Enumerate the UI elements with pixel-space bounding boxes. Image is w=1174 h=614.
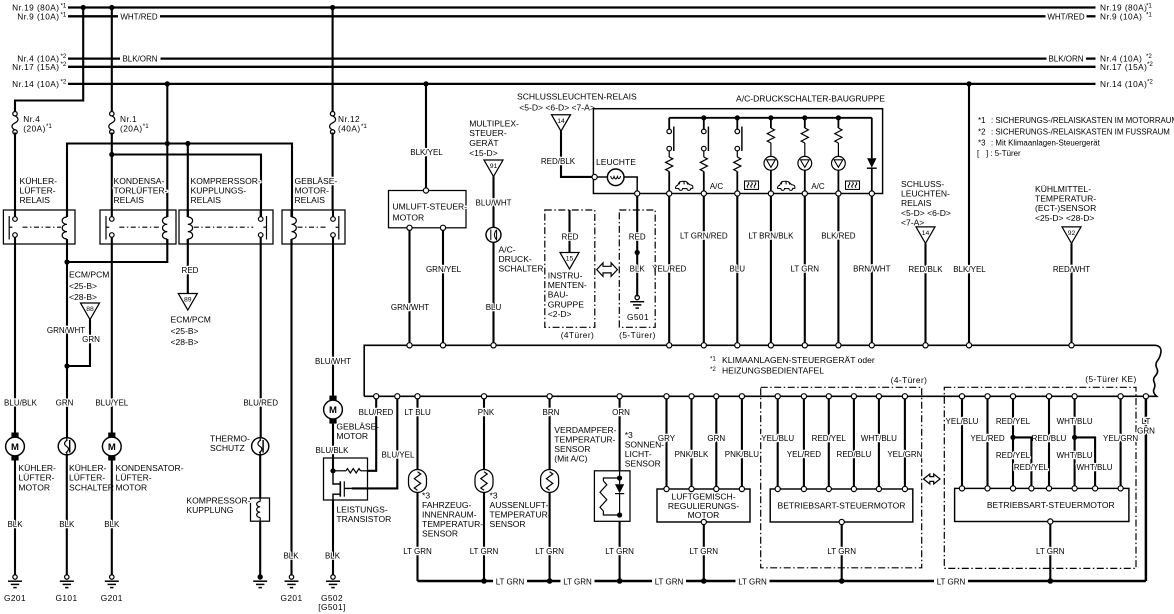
svg-text:LT GRN/RED: LT GRN/RED xyxy=(680,232,728,241)
svg-text:LT GRN: LT GRN xyxy=(790,265,819,274)
svg-text:RELAIS: RELAIS xyxy=(191,195,222,205)
svg-text:FAHRZEUG-: FAHRZEUG- xyxy=(422,500,472,510)
wire branch RED/YEL xyxy=(1013,437,1031,488)
wire baugruppe top bus xyxy=(669,117,872,119)
svg-text:BLK: BLK xyxy=(325,552,341,561)
svg-text:Nr.17 (15A): Nr.17 (15A) xyxy=(1100,62,1147,72)
switch KUEHLER-LUEFTER-SCHALTER xyxy=(58,438,75,455)
terminal control unit bottom x962 xyxy=(959,394,964,399)
junction coil bus x167 xyxy=(165,141,170,146)
svg-text:STEUER-: STEUER- xyxy=(469,128,507,138)
wire coil supply bus xyxy=(67,144,292,218)
svg-text:WHT/BLU: WHT/BLU xyxy=(861,434,897,443)
svg-text:GRN/WHT: GRN/WHT xyxy=(47,326,85,335)
svg-text:*2: *2 xyxy=(61,78,67,85)
icon car vent 2 xyxy=(778,181,795,190)
junction in transistor box xyxy=(330,468,335,473)
wire sensor2 to bus xyxy=(483,493,485,582)
wire multiplex BLU/WHT xyxy=(492,177,494,228)
svg-text:PNK/BLK: PNK/BLK xyxy=(675,450,709,459)
svg-text:SCHALTER: SCHALTER xyxy=(69,482,114,492)
svg-text:(40A): (40A) xyxy=(338,124,361,134)
relay K1 KUEHLER-LUEFTER-RELAIS xyxy=(3,210,75,244)
wire motor1 to ground BLK xyxy=(14,461,16,576)
resistor in transistor box xyxy=(333,470,346,472)
svg-text:MOTOR: MOTOR xyxy=(116,482,148,492)
svg-text:LT BRN/BLK: LT BRN/BLK xyxy=(748,232,794,241)
svg-text:G501: G501 xyxy=(627,312,649,322)
svg-text:INNENRAUM-: INNENRAUM- xyxy=(422,510,477,520)
terminal control unit bottom x987 xyxy=(985,394,990,399)
svg-text:RELAIS: RELAIS xyxy=(295,195,326,205)
svg-text:*1: *1 xyxy=(710,356,716,363)
wire betriebsart5 to bus xyxy=(1049,524,1051,581)
svg-text:*2: *2 xyxy=(61,61,67,68)
svg-text:91: 91 xyxy=(490,163,498,170)
svg-text:RED: RED xyxy=(562,232,579,241)
wire relay4 to geblaese motor BLU/WHT xyxy=(332,244,334,400)
svg-text:BLU/YEL: BLU/YEL xyxy=(382,450,415,459)
arrow equivalence left xyxy=(597,263,618,277)
svg-text:YEL/GRN: YEL/GRN xyxy=(887,450,922,459)
terminal betriebsart4 x878 xyxy=(876,486,881,491)
terminal leuchte feed xyxy=(592,174,597,179)
wire RED/BLK to leuchte xyxy=(561,131,592,177)
wire GRY luftgemisch xyxy=(665,399,667,489)
svg-text:BLU/YEL: BLU/YEL xyxy=(95,399,128,408)
svg-text:<25-D> <28-D>: <25-D> <28-D> xyxy=(1035,213,1094,223)
wire BLK/YEL to umluft motor xyxy=(425,84,427,191)
svg-text:GRN: GRN xyxy=(56,399,74,408)
svg-text:*1: *1 xyxy=(61,11,67,18)
wire relay1 coil return xyxy=(66,239,68,366)
svg-text:SCHALTER: SCHALTER xyxy=(499,264,544,274)
terminal control unit bottom x1049 xyxy=(1046,394,1051,399)
svg-text:BLU/WHT: BLU/WHT xyxy=(476,199,512,208)
svg-text:SCHLUSS-: SCHLUSS- xyxy=(901,179,944,189)
svg-text:LÜFTER-: LÜFTER- xyxy=(116,473,152,483)
junction branch RED/YEL xyxy=(1010,435,1015,440)
svg-text:UMLUFT-STEUER-: UMLUFT-STEUER- xyxy=(393,202,468,212)
icon car vent 1 xyxy=(676,181,693,190)
junction lamp ground xyxy=(635,250,640,255)
svg-text:GRN/WHT: GRN/WHT xyxy=(391,303,429,312)
sensor FAHRZEUG-INNENRAUM thermistor xyxy=(409,470,427,493)
terminal control unit top x703 xyxy=(701,343,706,348)
svg-text:<2-D>: <2-D> xyxy=(548,309,572,319)
sensor SONNENLICHT box xyxy=(594,471,630,522)
svg-text:LT GRN: LT GRN xyxy=(827,547,856,556)
wire AC druckschalter BLU xyxy=(492,242,494,345)
wire switch bus fuse Nr.1 to relay3 xyxy=(112,155,261,220)
wire fuse Nr.4 to relay xyxy=(14,133,16,211)
svg-text:SENSOR: SENSOR xyxy=(625,459,661,469)
svg-text:LT GRN: LT GRN xyxy=(563,577,592,586)
svg-text:BLK: BLK xyxy=(7,520,23,529)
wire YEL/BLU betriebsart5 xyxy=(961,399,963,489)
terminal umluft top xyxy=(423,188,428,193)
junction bus x619 xyxy=(617,578,623,584)
junction switch bus x112 xyxy=(109,152,114,157)
svg-text:LT GRN: LT GRN xyxy=(689,547,718,556)
svg-text:*1: *1 xyxy=(46,123,52,130)
svg-text:A/C-: A/C- xyxy=(499,245,516,255)
wire relay3 coil to ECM RED xyxy=(187,239,189,294)
terminal umluft bottom left xyxy=(407,225,412,230)
relay K2 KONDENSATORLUEFTER-RELAIS xyxy=(100,210,176,244)
svg-text:89: 89 xyxy=(184,297,192,304)
svg-text:LEISTUNGS-: LEISTUNGS- xyxy=(336,505,387,515)
svg-text:RED/BLU: RED/BLU xyxy=(837,450,872,459)
svg-text:(4-Türer): (4-Türer) xyxy=(891,375,928,385)
svg-text:MOTOR: MOTOR xyxy=(18,482,50,492)
wire drop to fuse Nr.12 xyxy=(332,8,334,112)
junction on Nr.19 bus at x112 xyxy=(109,5,114,10)
terminal control unit top x969 xyxy=(966,343,971,348)
svg-text:BLU/BLK: BLU/BLK xyxy=(316,446,350,455)
wire Nr.17 supply xyxy=(68,66,1096,68)
wire GRN/YEL umluft xyxy=(442,230,444,345)
svg-text:<28-B>: <28-B> xyxy=(171,337,199,347)
motor M1 KUEHLER-LUEFTER-MOTOR xyxy=(11,433,18,438)
box 5-tuerer-ke dash-dot xyxy=(944,387,1136,568)
svg-text:RELAIS: RELAIS xyxy=(901,198,932,208)
terminal control unit top x925 xyxy=(923,343,928,348)
svg-text:GRUPPE: GRUPPE xyxy=(548,299,584,309)
svg-text:RED/WHT: RED/WHT xyxy=(1053,265,1090,274)
svg-text:RED/BLK: RED/BLK xyxy=(908,265,943,274)
terminal betriebsart4 x828 xyxy=(826,486,831,491)
transistor Q1 mosfet symbol xyxy=(333,471,340,484)
terminal betriebsart5 x1095 xyxy=(1093,486,1098,491)
lamp LEUCHTE xyxy=(595,176,608,178)
sun sensor internals xyxy=(619,471,621,478)
svg-text:Nr.4: Nr.4 xyxy=(23,114,40,124)
svg-text:VERDAMPFER-: VERDAMPFER- xyxy=(554,425,616,435)
wire LT GRN far right xyxy=(1145,399,1148,581)
wire YEL/RED betriebsart4 xyxy=(803,399,805,489)
wire RED to connector 15 xyxy=(568,210,570,253)
component UMLUFT-STEUER-MOTOR box xyxy=(389,191,467,228)
svg-text:TEMPERATUR-: TEMPERATUR- xyxy=(490,510,551,520)
svg-text:BLK/ORN: BLK/ORN xyxy=(122,55,157,64)
wire RED/BLU betriebsart5 xyxy=(1048,399,1050,489)
wire relay2 coil return link xyxy=(67,239,167,262)
terminal control unit top x804 xyxy=(802,343,807,348)
terminal betriebsart4 x904 xyxy=(902,486,907,491)
terminal control unit bottom x777 xyxy=(775,394,780,399)
terminal control unit bottom x1013 xyxy=(1010,394,1015,399)
svg-text:GRN: GRN xyxy=(1137,427,1155,436)
motor BETRIEBSART-STEUERMOTOR 4T box xyxy=(770,489,913,522)
wire GRN/WHT umluft xyxy=(408,230,410,345)
terminal control unit bottom x1120 xyxy=(1118,394,1123,399)
svg-text:MOTOR: MOTOR xyxy=(336,431,368,441)
svg-text:KÜHLER-: KÜHLER- xyxy=(69,463,107,473)
svg-text:BLK/YEL: BLK/YEL xyxy=(953,265,986,274)
svg-text:BLU/WHT: BLU/WHT xyxy=(315,357,351,366)
component KOMPRESSOR-KUPPLUNG xyxy=(251,498,270,521)
terminal leuchte down xyxy=(635,191,640,196)
svg-text:MOTOR-: MOTOR- xyxy=(295,186,330,196)
svg-text:LT GRN: LT GRN xyxy=(470,547,499,556)
svg-text:TORLÜFTER-: TORLÜFTER- xyxy=(114,186,168,196)
svg-text:<15-D>: <15-D> xyxy=(469,148,498,158)
terminal control unit bottom x803 xyxy=(801,394,806,399)
sensor VERDAMPFER thermistor xyxy=(541,470,559,493)
wire BRN sensor xyxy=(549,399,551,469)
terminal control unit bottom x484 xyxy=(481,394,486,399)
wire relay4 coil to ground BLK xyxy=(290,239,292,576)
svg-text:Nr.1: Nr.1 xyxy=(120,114,137,124)
wire sensor1 to bus xyxy=(416,493,418,582)
svg-text:BETRIEBSART-STEUERMOTOR: BETRIEBSART-STEUERMOTOR xyxy=(778,501,906,511)
svg-text:G201: G201 xyxy=(280,593,302,603)
svg-text:Nr.9 (10A): Nr.9 (10A) xyxy=(17,11,59,21)
svg-text:KONDENSATOR-: KONDENSATOR- xyxy=(116,463,184,473)
svg-text:LT GRN: LT GRN xyxy=(937,577,966,586)
svg-text:*2: *2 xyxy=(978,127,985,136)
wire YEL/RED drop xyxy=(668,196,670,345)
wire transistor to ground BLK xyxy=(332,500,334,576)
wire switch to ground BLK xyxy=(66,455,68,576)
wire Nr.9 WHT/RED supply xyxy=(68,15,118,17)
wire PNK sensor xyxy=(483,399,485,469)
wire BLU/RED from control unit xyxy=(367,399,376,471)
svg-text:TRANSISTOR: TRANSISTOR xyxy=(336,514,391,524)
wire thermoschutz to kupplung xyxy=(259,455,261,498)
box 4-tuerer dash-dot xyxy=(761,387,922,568)
svg-text:TEMPERATUR-: TEMPERATUR- xyxy=(422,519,483,529)
svg-text:KÜHLER-: KÜHLER- xyxy=(20,176,58,186)
svg-text:BLK: BLK xyxy=(104,520,120,529)
terminal control unit bottom x828 xyxy=(826,394,831,399)
terminal betriebsart5 x1120 xyxy=(1118,486,1123,491)
svg-text:*2: *2 xyxy=(710,366,716,373)
svg-text:PNK/BLU: PNK/BLU xyxy=(725,450,759,459)
svg-text:RED: RED xyxy=(182,266,199,275)
terminal betriebsart5 bottom xyxy=(1048,519,1053,524)
svg-text:BLU/BLK: BLU/BLK xyxy=(4,399,38,408)
svg-text:BAU-: BAU- xyxy=(548,290,569,300)
terminal control unit bottom x1074 xyxy=(1072,394,1077,399)
svg-text:RED: RED xyxy=(629,232,646,241)
wire PNK/BLK luftgemisch xyxy=(690,399,692,489)
wire branch WHT/BLU xyxy=(1075,437,1096,488)
wire LT BRN/BLK drop xyxy=(770,196,772,345)
svg-text:BLU: BLU xyxy=(486,303,502,312)
terminal control unit bottom x1145 xyxy=(1143,394,1148,399)
valve column 4 with resistor xyxy=(768,115,773,120)
connector 15 instrumente xyxy=(560,253,579,270)
svg-text:BLK: BLK xyxy=(630,265,646,274)
svg-text:AUSSENLUFT-: AUSSENLUFT- xyxy=(490,500,549,510)
svg-text:(20A): (20A) xyxy=(120,124,143,134)
ground below kupplung xyxy=(258,574,263,579)
svg-text:88: 88 xyxy=(86,306,94,313)
wire relay3 to thermoschutz BLU/RED xyxy=(260,244,262,438)
wire kupplung to ground xyxy=(259,521,261,576)
wire relay1 to kuehler-luefter-motor BLU/BLK xyxy=(14,244,16,433)
wire Nr.14 drop to coil bus xyxy=(166,84,168,217)
wire coil bus to relay3 coil xyxy=(187,144,189,218)
terminal betriebsart5 x1049 xyxy=(1046,486,1051,491)
svg-text:GEBLÄSE-: GEBLÄSE- xyxy=(295,176,338,186)
svg-text:BLK/YEL: BLK/YEL xyxy=(410,148,443,157)
box KLIMAANLAGEN-STEUERGERAET xyxy=(364,345,1161,396)
terminal luftgemisch bottom xyxy=(701,519,706,524)
svg-text:LT GRN: LT GRN xyxy=(738,577,767,586)
terminal control unit bottom x619 xyxy=(617,394,622,399)
terminal control unit top x770 xyxy=(768,343,773,348)
wire RED/BLK right drop xyxy=(924,243,926,345)
junction bus x703 xyxy=(701,578,707,584)
connector 14 schlussleuchten xyxy=(552,115,571,132)
svg-text:G101: G101 xyxy=(55,593,77,603)
svg-text:WHT/BLU: WHT/BLU xyxy=(1077,463,1113,472)
svg-text:KUPPLUNG: KUPPLUNG xyxy=(186,505,233,515)
svg-text:LÜFTER-: LÜFTER- xyxy=(18,473,54,483)
svg-text:WHT/BLU: WHT/BLU xyxy=(1057,451,1093,460)
svg-text:M: M xyxy=(329,405,337,416)
svg-text:BRN/WHT: BRN/WHT xyxy=(853,265,890,274)
diode column in baugruppe xyxy=(871,118,873,159)
svg-text:DRUCK-: DRUCK- xyxy=(499,254,532,264)
svg-text:*3: *3 xyxy=(978,139,986,148)
terminal baugruppe bottom x770 xyxy=(768,191,773,196)
terminal control unit top x1071 xyxy=(1069,343,1074,348)
box INSTRUMENTEN dash-dot xyxy=(545,210,595,327)
motor M2 KONDENSATOR-LUEFTER-MOTOR xyxy=(108,433,115,438)
svg-text:KONDENSA-: KONDENSA- xyxy=(114,176,165,186)
svg-text:TEMPERATUR-: TEMPERATUR- xyxy=(1035,194,1096,204)
svg-text:TEMPERATUR-: TEMPERATUR- xyxy=(554,435,615,445)
motor BETRIEBSART-STEUERMOTOR 5T box xyxy=(955,488,1129,521)
terminal control unit bottom x376 xyxy=(374,394,379,399)
terminal betriebsart5 x962 xyxy=(959,486,964,491)
svg-text:BRN: BRN xyxy=(543,408,560,417)
svg-text:15: 15 xyxy=(566,256,574,263)
svg-text:BLU/RED: BLU/RED xyxy=(243,399,278,408)
svg-text:KLIMAANLAGEN-STEUERGERÄT oder: KLIMAANLAGEN-STEUERGERÄT oder xyxy=(722,355,875,365)
svg-text:SENSOR: SENSOR xyxy=(422,529,458,539)
svg-text:<7-A>: <7-A> xyxy=(901,217,924,227)
svg-text:LÜFTER-: LÜFTER- xyxy=(20,186,56,196)
svg-text:THERMO-: THERMO- xyxy=(210,434,250,444)
svg-text:LT GRN: LT GRN xyxy=(535,547,564,556)
connector 88 ECM/PCM xyxy=(81,303,100,320)
svg-text:GRN/YEL: GRN/YEL xyxy=(426,265,462,274)
svg-text:MOTOR: MOTOR xyxy=(393,212,425,222)
svg-text:LT GRN: LT GRN xyxy=(1036,547,1065,556)
fuse Nr.4 (20A) xyxy=(13,112,17,116)
terminal control unit bottom x397 xyxy=(395,394,400,399)
svg-text:: SICHERUNGS-/RELAISKASTEN IM: : SICHERUNGS-/RELAISKASTEN IM FUSSRAUM xyxy=(991,127,1170,136)
icon defrost 2 xyxy=(846,181,860,189)
terminal baugruppe bottom x669 xyxy=(667,191,672,196)
wire Nr.19 80A supply bus xyxy=(68,6,1096,8)
svg-text:GRY: GRY xyxy=(658,434,676,443)
junction on Nr.14 line at x969 xyxy=(966,81,971,86)
terminal control unit bottom x549 xyxy=(547,394,552,399)
svg-text:SENSOR: SENSOR xyxy=(490,519,526,529)
ground G502 xyxy=(331,575,335,579)
svg-text:RED/BLK: RED/BLK xyxy=(541,157,576,166)
svg-text:ECM/PCM: ECM/PCM xyxy=(69,270,109,280)
terminal betriebsart5 x1031 xyxy=(1029,486,1034,491)
wire LT GRN ground bus xyxy=(418,580,494,583)
wire BLU drop xyxy=(736,196,738,345)
svg-text:*2: *2 xyxy=(1147,78,1153,85)
svg-text:RELAIS: RELAIS xyxy=(114,195,145,205)
svg-text:*2: *2 xyxy=(61,53,67,60)
motor M3 GEBLAESE-MOTOR xyxy=(329,396,336,401)
svg-text:KOMPRESSOR-: KOMPRESSOR- xyxy=(186,496,250,506)
svg-text:LT GRN: LT GRN xyxy=(655,577,684,586)
junction branch WHT/BLU xyxy=(1072,435,1077,440)
svg-text:*3: *3 xyxy=(422,491,430,501)
terminal luftgemisch x691 xyxy=(689,486,694,491)
terminal luftgemisch x741 xyxy=(739,486,744,491)
icon defrost 1 xyxy=(745,181,759,189)
svg-text:KUPPLUNGS-: KUPPLUNGS- xyxy=(191,186,247,196)
ground G501 in box xyxy=(635,295,639,299)
wire BLK/YEL right drop xyxy=(968,84,970,345)
svg-text:: SICHERUNGS-/RELAISKASTEN IM: : SICHERUNGS-/RELAISKASTEN IM MOTORRAUM xyxy=(991,116,1174,125)
svg-text:RED/YEL: RED/YEL xyxy=(996,451,1031,460)
svg-text:YEL/RED: YEL/RED xyxy=(652,265,686,274)
svg-text:HEIZUNGSBEDIENTAFEL: HEIZUNGSBEDIENTAFEL xyxy=(722,366,824,376)
svg-text:SCHUTZ: SCHUTZ xyxy=(210,443,245,453)
wire luftgemisch to bus xyxy=(703,525,705,581)
svg-text:RELAIS: RELAIS xyxy=(20,195,51,205)
wire YEL/GRN betriebsart4 xyxy=(904,399,906,489)
terminal betriebsart4 x777 xyxy=(775,486,780,491)
terminal control unit top x409 xyxy=(407,343,412,348)
terminal control unit bottom x853 xyxy=(851,394,856,399)
wire GRN to fan switch xyxy=(66,366,68,438)
svg-text:GRN: GRN xyxy=(82,335,100,344)
terminal betriebsart4 x803 xyxy=(801,486,806,491)
terminal baugruppe bottom x838 xyxy=(836,191,841,196)
switch THERMO-SCHUTZ xyxy=(252,438,269,455)
svg-text:*1: *1 xyxy=(143,123,149,130)
wire LT GRN drop xyxy=(804,196,806,345)
terminal luftgemisch x716 xyxy=(714,486,719,491)
terminal control unit top x871 xyxy=(869,343,874,348)
svg-text:WHT/RED: WHT/RED xyxy=(1047,12,1085,21)
svg-text:LT GRN: LT GRN xyxy=(403,547,432,556)
svg-text:BLK: BLK xyxy=(59,520,75,529)
svg-text:: Mit Klimaanlagen-Steuergerä: : Mit Klimaanlagen-Steuergerät xyxy=(991,139,1101,148)
terminal control unit top x493 xyxy=(491,343,496,348)
wire WHT/BLU betriebsart4 xyxy=(878,399,880,489)
terminal betriebsart4 bottom xyxy=(839,519,844,524)
junction bus x1050 xyxy=(1048,578,1054,584)
junction bus x484 xyxy=(481,578,487,584)
svg-text:M: M xyxy=(108,442,116,453)
wire BLK/RED drop xyxy=(837,196,839,345)
svg-text:92: 92 xyxy=(1068,230,1076,237)
terminal control unit top x669 xyxy=(667,343,672,348)
wire sun sensor to bus xyxy=(619,521,621,581)
svg-text:RED/YEL: RED/YEL xyxy=(1014,463,1049,472)
connector 89 ECM/PCM xyxy=(178,294,197,311)
svg-text:BETRIEBSART-STEUERMOTOR: BETRIEBSART-STEUERMOTOR xyxy=(987,500,1115,510)
connector 92 ECT xyxy=(1062,227,1081,244)
relay K4 GEBLAESE-MOTOR-RELAIS xyxy=(282,210,345,244)
wire RED/YEL betriebsart4 xyxy=(828,399,830,489)
